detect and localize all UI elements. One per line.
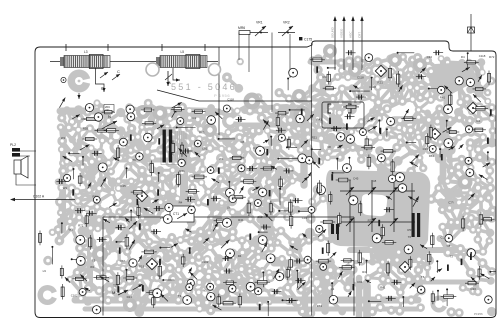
pad [256,198,263,205]
wire [342,130,352,135]
pad [202,298,211,307]
svg-text:O: O [101,86,105,91]
wire [182,148,188,161]
wire [257,240,259,251]
wire [208,277,211,293]
wire [297,109,300,123]
wire [141,218,144,227]
wire [229,137,239,149]
pad [237,124,245,132]
pad [327,125,334,132]
wire [329,138,331,152]
pad [318,96,326,104]
pad [138,222,148,232]
wire [221,132,228,137]
pad [265,197,272,204]
wire [371,247,372,262]
wire [361,69,369,70]
pad [172,125,181,134]
wire [469,69,473,83]
pad [196,305,204,313]
wire [207,290,223,303]
wire [371,158,378,162]
pad [177,249,185,257]
wire [308,149,320,163]
wire [377,72,391,79]
pad [157,198,165,206]
wire [100,167,112,182]
svg-text:R41: R41 [317,118,323,122]
pad [187,217,197,227]
wire [269,211,273,219]
svg-text:R21: R21 [312,135,318,139]
pad [306,214,316,224]
pad [214,278,223,287]
pad [199,165,207,173]
wire [352,122,362,132]
wire [301,279,312,290]
pad [138,124,145,131]
wire [80,248,92,251]
wire [157,268,170,278]
wire [323,83,328,93]
wire [373,98,382,112]
pad [268,225,276,233]
pad [99,137,106,144]
wire [308,130,322,139]
wire [227,141,239,153]
pad [104,117,113,126]
wire [143,251,149,261]
wire [311,202,315,209]
wire [298,288,312,302]
wire [151,212,157,219]
pad [257,113,267,123]
pad [66,217,74,225]
pad [225,285,233,293]
pad [268,215,275,222]
wire [241,128,250,140]
wire [391,59,401,73]
wire [69,119,79,128]
wire [188,232,201,233]
wire [317,268,327,277]
wire [298,237,302,249]
wire [177,117,179,130]
pad [326,284,334,292]
wire [82,257,93,259]
wire [361,153,371,159]
wire [438,128,447,133]
wire [110,217,117,230]
wire [438,133,448,140]
wire [77,240,80,248]
wire [209,228,217,233]
wire [473,220,482,230]
wire [443,227,448,243]
wire [389,130,400,137]
pad [207,244,214,251]
wire [89,169,93,178]
pad [173,295,183,305]
wire [368,60,377,65]
pad [76,154,85,163]
wire [269,201,283,211]
pad [288,237,297,246]
wire [293,178,302,181]
bus trace [245,108,287,110]
wire [243,200,252,213]
wire [188,283,189,291]
wire [109,263,120,269]
wire [233,212,240,219]
pad [104,159,112,167]
wire [467,178,471,193]
wire [369,70,377,79]
wire [111,281,122,292]
wire [340,102,353,113]
wire [478,230,490,233]
wire [228,118,232,132]
pad [267,238,274,245]
wire [202,183,209,192]
wire [181,253,193,261]
svg-text:C: C [117,69,120,74]
wire [416,270,421,279]
wire [388,250,399,254]
wire [191,168,202,182]
pad [253,144,262,153]
wire [473,69,478,84]
wire [222,170,233,171]
wire [173,279,182,289]
wire [278,107,292,120]
wire [123,262,131,268]
wire [82,222,92,231]
wire [319,131,321,139]
wire [270,159,279,163]
pad [205,268,213,276]
wire [450,159,462,160]
pad [267,288,276,297]
wire [483,137,492,142]
wire [411,69,420,79]
pad [77,275,84,282]
pad [204,228,214,238]
wire [80,148,91,158]
wire [368,270,380,278]
svg-text:C8: C8 [373,179,377,183]
wire [459,118,471,132]
wire [319,131,331,138]
wire [428,113,438,122]
wire [463,202,470,207]
wire [478,83,480,93]
pad [319,194,327,202]
wire [363,77,373,79]
pad [57,218,65,226]
wire [429,87,431,100]
pad [248,187,257,196]
wire [352,88,362,91]
wire [457,218,471,223]
pad [285,94,293,102]
pad [133,298,143,308]
pad [207,289,216,298]
wire [442,73,451,78]
pad [135,263,144,272]
wire [250,269,263,273]
pad [127,225,136,234]
wire [468,160,472,168]
wire [470,188,478,202]
wire [473,279,477,291]
wire [67,110,79,118]
wire [459,160,471,167]
pad [196,265,204,273]
wire [210,137,221,148]
wire [411,130,418,132]
wire [263,219,272,231]
wire [192,232,201,242]
pad [218,267,228,277]
svg-text:R63: R63 [199,131,205,135]
wire [233,253,243,258]
wire [362,79,363,91]
wire [308,128,320,132]
wire [241,171,247,173]
wire [358,98,373,102]
pad [88,145,95,152]
wire [207,293,211,303]
wide trace [134,201,184,207]
wire [270,148,274,163]
wide trace [103,227,131,256]
wire [128,167,141,179]
wire [240,207,252,219]
pad [258,187,267,196]
wire [298,240,309,249]
wire [221,158,233,170]
wire [289,120,291,127]
pad [68,149,75,156]
wire [301,233,310,237]
wire [187,149,189,161]
wire [350,281,360,287]
wire [291,271,299,282]
wire [77,267,91,272]
wire [443,147,450,160]
wire [383,252,388,262]
wire [318,190,324,199]
wire [80,141,91,148]
wire [130,160,142,170]
wire [149,288,161,292]
wire [437,78,452,81]
wire [139,110,152,120]
wire [270,182,273,187]
wire [70,218,79,222]
wire [68,199,78,201]
svg-text:PL2: PL2 [10,143,16,147]
wire [241,171,249,180]
wire [470,120,479,121]
svg-text:CT1: CT1 [173,212,179,216]
pad [178,168,187,177]
wire [287,210,297,217]
pad [116,259,123,266]
pad [267,207,275,215]
wire [130,153,141,161]
pad [208,198,216,206]
wire [281,282,291,291]
wire [348,61,350,69]
wire [151,201,153,212]
svg-text:W1: W1 [61,136,66,140]
pad [229,208,237,216]
wire [440,78,451,90]
wire [273,148,279,159]
wire [372,307,380,311]
wire [98,219,113,229]
pad [143,148,152,157]
wire [260,110,271,111]
svg-text:T6: T6 [421,275,425,279]
wire [401,89,403,102]
wire [401,298,411,302]
pad [115,208,124,217]
pad [167,233,176,242]
pad [206,133,215,142]
wire [179,260,193,269]
wire [189,119,198,128]
wire [327,277,330,288]
wire [90,251,94,259]
wire [460,68,469,82]
wire [143,260,153,273]
wire [270,171,280,183]
pad [148,273,157,282]
wire [482,211,493,220]
wire [200,303,207,309]
svg-text:R72: R72 [78,224,84,228]
pad [314,107,323,116]
wire [149,247,161,260]
wire [221,137,229,149]
wire [399,213,402,220]
wire [209,259,219,272]
wire [309,88,312,99]
wire [258,248,271,257]
wire [127,273,130,281]
wire [411,60,413,69]
wire [388,238,399,252]
wire [441,59,448,72]
pad [126,156,134,164]
wire [478,72,483,83]
wire [242,238,248,240]
pad [197,125,205,133]
pad [258,162,267,171]
wire [352,101,358,109]
wire [83,180,89,190]
wire [128,158,138,167]
wire [383,279,388,281]
wire [208,277,218,282]
wire [270,229,271,242]
wire [139,261,149,268]
wire [150,167,162,178]
wire [222,149,228,163]
wire [308,121,311,130]
wire [113,212,120,219]
wire [180,137,189,149]
pad [273,143,283,153]
wire [273,187,282,200]
wire [263,271,271,278]
wire [120,150,130,158]
wire [400,279,409,292]
wire [70,159,80,168]
wire [123,269,129,281]
wire [139,297,150,312]
wire [107,249,119,252]
wire [478,188,481,199]
wire [431,97,441,100]
pad [115,185,122,192]
wire [281,181,292,192]
pad [253,274,260,281]
wire [333,99,340,113]
wire [161,138,168,150]
pad [238,236,247,245]
pad [238,248,248,258]
pad [145,238,153,246]
wire [437,73,443,81]
pad [266,269,273,276]
wire [297,107,313,111]
wire [318,101,322,113]
wire [318,58,328,59]
wire [168,107,182,111]
wire [297,142,301,150]
pad [218,145,226,153]
wire [362,77,373,91]
pad [274,154,283,163]
pad [296,95,304,103]
wire [388,161,398,162]
svg-text:C33: C33 [427,55,433,59]
wire [71,152,79,153]
wire [229,269,241,280]
pad [277,129,285,137]
wire [58,182,71,188]
wire [142,177,150,181]
wire [151,119,162,131]
wire [400,120,411,130]
wire [106,109,110,121]
wire [441,203,450,208]
wire [281,127,289,133]
wire [143,227,149,242]
wire [198,108,211,119]
pad [228,253,236,261]
wire [270,219,274,229]
wire [481,198,489,199]
wire [312,270,323,278]
wire [379,203,388,209]
pad [214,292,224,302]
